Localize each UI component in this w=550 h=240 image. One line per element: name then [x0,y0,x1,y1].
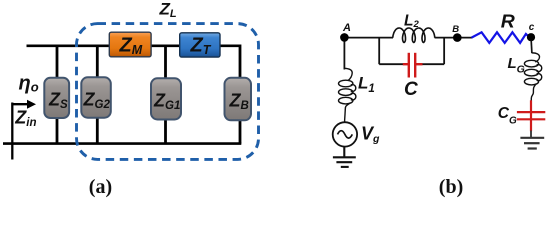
wire stem Z_G1 [164,46,167,144]
svg-text:A: A [342,22,351,34]
capacitor CG (red) [517,112,545,119]
svg-text:Vg: Vg [361,124,380,146]
block Z_M (orange) [109,32,151,57]
block Z_T (blue) [180,33,220,57]
svg-text:ZL: ZL [159,0,177,20]
inductor L1 [339,68,356,122]
block Z_G2 [81,77,111,117]
svg-text:L2: L2 [404,12,419,30]
parallel branch right riser [443,38,445,65]
svg-text:c: c [529,22,535,33]
resistor R (blue) [472,32,530,43]
svg-text:C: C [404,79,418,100]
node A [340,33,349,42]
svg-text:B: B [452,24,459,35]
wire CG to ground [530,131,532,138]
dashed box Z_L [77,24,259,160]
wire stem Z_S [56,46,59,144]
svg-text:LG: LG [508,55,525,76]
parallel branch bottom wires [379,63,403,65]
wire c down to LG [530,41,533,54]
svg-text:CG: CG [498,105,517,127]
node B [453,33,462,42]
wire L2 to B [435,37,473,39]
wire A to L2 [344,37,393,39]
block Z_B [225,78,252,121]
svg-text:ηo: ηo [19,73,39,95]
ground left [333,147,356,167]
wire stem Z_B / right riser [239,45,242,144]
wire stem Z_G2 [96,46,99,144]
svg-text:L1: L1 [358,74,375,96]
svg-text:Zin: Zin [14,108,36,130]
source Vg [333,122,357,146]
arrow Z_in [12,100,36,109]
capacitor C (red) [403,53,423,78]
ground right [520,138,544,149]
inductor L2 [393,28,435,42]
input port line [11,103,13,160]
wire A down [343,38,345,70]
svg-text:R: R [501,12,515,32]
svg-text:(b): (b) [439,176,463,198]
node c [527,33,535,41]
parallel branch left riser [378,38,380,65]
block Z_S [44,78,69,118]
wire bottom bus (a) [3,142,241,145]
svg-text:(a): (a) [89,176,112,198]
inductor LG [524,53,541,101]
wire top bus (a) [27,44,242,47]
wire LG to CG (red) [530,100,532,131]
block Z_G1 [151,78,181,119]
